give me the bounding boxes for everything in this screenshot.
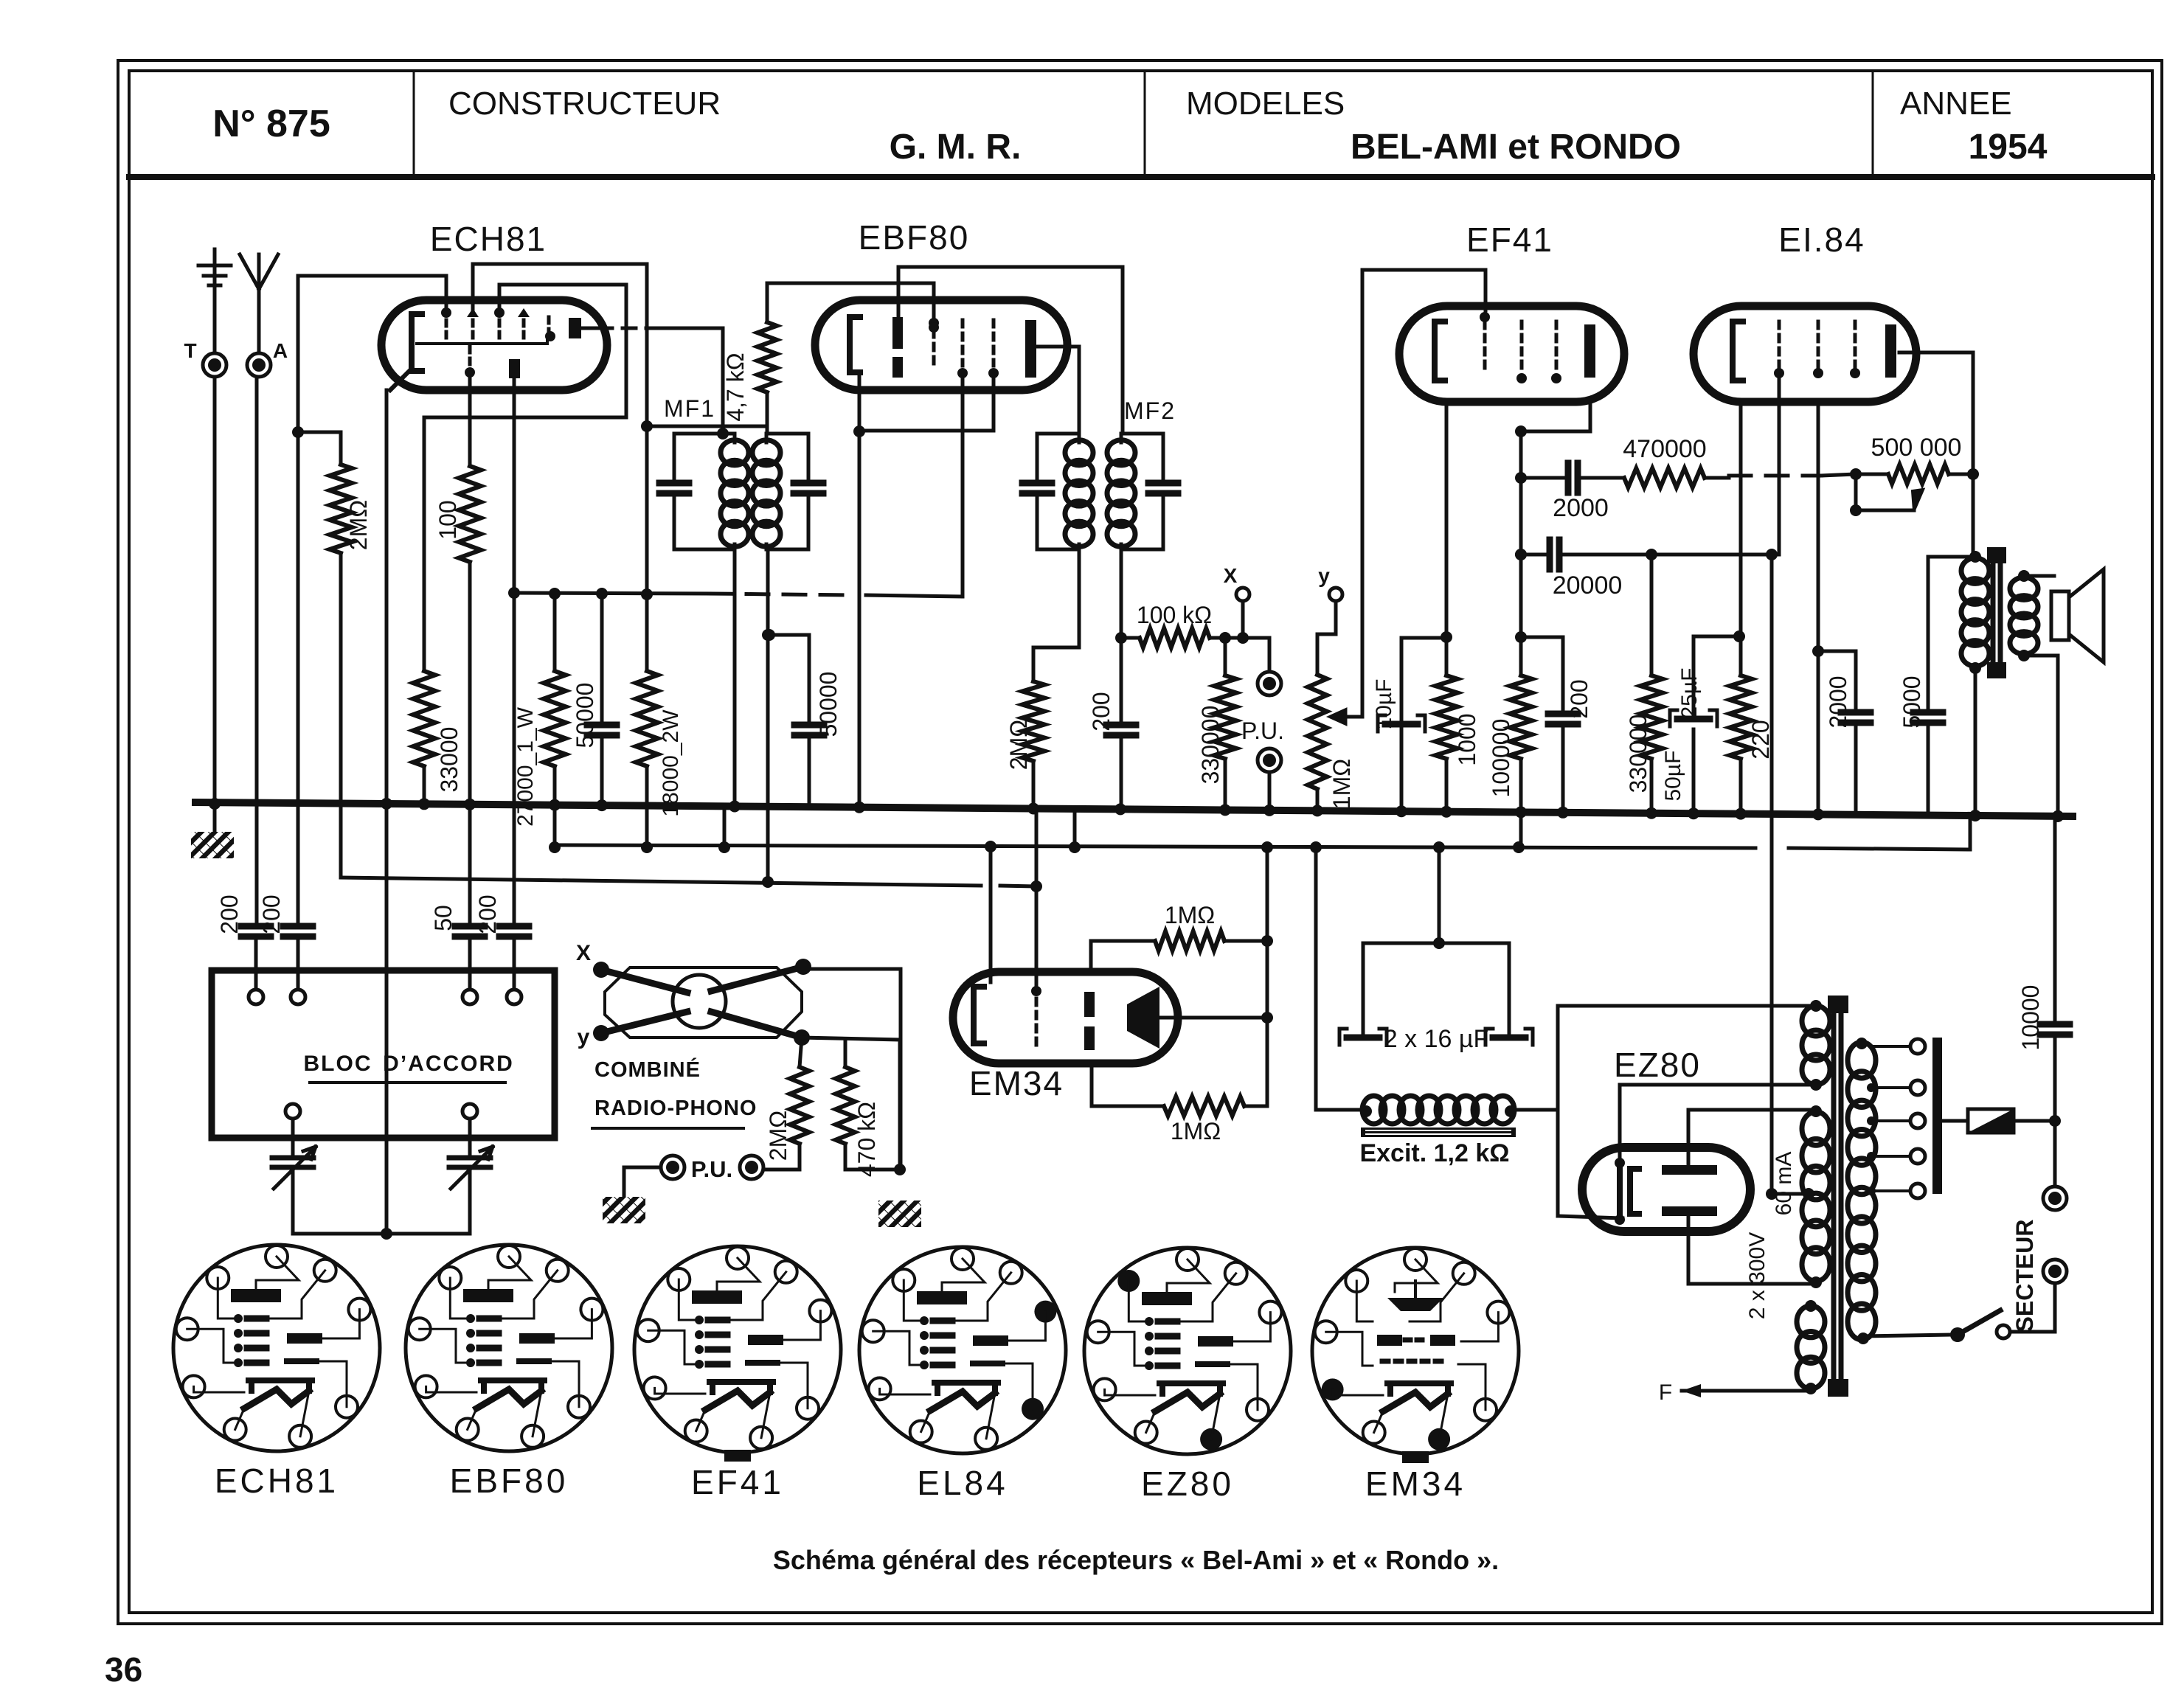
svg-text:SECTEUR: SECTEUR: [2011, 1220, 2038, 1333]
IF transformer MF2 rails: [1037, 434, 1163, 549]
wire pot 1M to bus: [1311, 789, 1323, 816]
svg-text:G. M. R.: G. M. R.: [890, 128, 1022, 167]
EBF80 anode: [1025, 320, 1036, 378]
wire speaker return to bus: [2052, 656, 2064, 822]
header text CONSTRUCTEUR: [448, 86, 721, 122]
capacitor 2x16uF left: [1339, 943, 1387, 1045]
capacitor 10uF cathode: [1378, 638, 1446, 810]
wire 220 to bus: [1735, 759, 1747, 820]
svg-text:ECH81: ECH81: [430, 220, 547, 258]
MF1 primary coil: [721, 434, 749, 549]
label F: [1659, 1380, 1672, 1405]
wire ECH81 anode to MF1: [581, 328, 723, 434]
EM34 cathode: [974, 987, 984, 1043]
wire 33000 to bus: [418, 766, 430, 810]
wire EL84 cathode down: [1733, 402, 1745, 675]
transformer heater winding top: [1802, 1000, 1830, 1091]
label SECTEUR: [2011, 1220, 2038, 1333]
terminal A: [247, 339, 288, 377]
svg-text:Schéma général des récepteu: Schéma général des récepteurs « Bel-Ami …: [773, 1545, 1499, 1575]
wire EZ80 anode top: [1688, 1110, 1811, 1165]
label 60mA: [1772, 1152, 1796, 1216]
resistor 1Mohm EM34 upper: [1091, 931, 1273, 951]
resistor 100000: [1488, 675, 1532, 797]
wire ECH81 osc grid top loop: [473, 264, 767, 671]
svg-text:200: 200: [1088, 692, 1114, 731]
resistor 1Mohm EM34 lower: [1092, 1063, 1267, 1116]
tube EM34: [953, 972, 1178, 1063]
svg-text:EZ80: EZ80: [1141, 1465, 1234, 1503]
svg-text:2 x 16 µF: 2 x 16 µF: [1384, 1025, 1488, 1053]
wire A down to grid capacitor: [255, 378, 259, 926]
wire EBF80 grid3 tie: [861, 373, 994, 431]
supply line A: [555, 845, 1970, 849]
wire screen cap stub: [1521, 637, 1563, 714]
wire 2Mohm detector to bus: [1027, 761, 1039, 815]
jack PU lower right: [740, 1156, 763, 1179]
capacitor 50000 first: [587, 588, 617, 811]
socket diagram EBF80: [406, 1245, 612, 1500]
svg-text:T: T: [184, 339, 196, 362]
EL84 anode: [1885, 324, 1896, 378]
svg-text:y: y: [578, 1025, 590, 1049]
MF2 primary coil: [1065, 434, 1093, 549]
svg-text:470000: 470000: [1623, 435, 1706, 463]
svg-text:RADIO-PHONO: RADIO-PHONO: [594, 1097, 757, 1120]
resistor 220 cathode EL84: [1730, 675, 1774, 760]
svg-text:2000: 2000: [1825, 675, 1851, 728]
wire B+ down to EZ80: [1766, 549, 1778, 1194]
wire EL84 screen down: [1812, 402, 1824, 820]
wire grid cap vertical: [297, 276, 300, 926]
wire OT primary bottom: [1969, 668, 1981, 821]
capacitor 200 ant 1: [241, 926, 271, 988]
resistor 100: [434, 466, 481, 562]
wire PU right to 2M: [763, 1144, 800, 1170]
EZ80 box: [1558, 1006, 1811, 1218]
terminal T: [184, 339, 226, 377]
capacitor 10000 mains: [2040, 810, 2070, 1121]
wire OT primary top feed: [1928, 555, 1975, 559]
MF1 secondary coil: [752, 434, 780, 549]
svg-text:2MΩ: 2MΩ: [1005, 720, 1032, 770]
wire 100 to bus and pad cap: [464, 562, 476, 926]
svg-text:COMBINÉ: COMBINÉ: [594, 1057, 701, 1082]
tube EZ80: [1582, 1147, 1750, 1231]
wire ECH81 heater pin down: [468, 372, 472, 466]
header text 1954: [1969, 128, 2048, 167]
wire PU left to ground: [603, 1167, 661, 1223]
resistor 1000 cathode EF41: [1435, 675, 1480, 766]
svg-text:CONSTRUCTEUR: CONSTRUCTEUR: [448, 86, 721, 122]
capacitor 2000 coupling: [1521, 463, 1624, 493]
EM34 grid: [1031, 986, 1041, 1047]
svg-text:200: 200: [474, 894, 501, 934]
jack PU lower left: [661, 1156, 684, 1179]
EL84 cathode: [1733, 322, 1743, 381]
svg-text:MF1: MF1: [664, 395, 715, 422]
phono switch rotor circle: [673, 975, 726, 1028]
svg-text:A: A: [273, 339, 288, 362]
chassis bus line: [195, 802, 2073, 816]
wire EM34 target out: [1159, 1012, 1273, 1024]
pot 1M wiper arrow: [1331, 710, 1361, 723]
svg-text:EF41: EF41: [691, 1463, 784, 1501]
terminal X upper: [1224, 564, 1249, 644]
jack PU upper 1: [1258, 638, 1281, 695]
wire EL84 grid stub: [1778, 373, 1781, 555]
resistor 2Mohm phono: [765, 1038, 809, 1161]
resistor 470000: [1624, 468, 1705, 487]
svg-text:MODELES: MODELES: [1186, 86, 1345, 122]
wire variable cap common: [293, 1228, 470, 1240]
ECH81 internal grid pins: [441, 308, 555, 341]
node MF1 top: [717, 428, 729, 439]
socket diagram EF41: [634, 1246, 841, 1501]
svg-text:y: y: [1318, 564, 1330, 587]
header text ANNEE: [1900, 86, 2012, 122]
wire 2M ohm top: [298, 432, 341, 465]
wire ECH81 grid1 top: [298, 276, 446, 310]
label PU upper: [1241, 718, 1284, 744]
EBF80 internal bars: [892, 317, 903, 378]
socket diagram ECH81: [173, 1245, 380, 1500]
header divider 2: [1144, 71, 1146, 177]
svg-text:X: X: [576, 941, 591, 965]
resistor 4.7k: [722, 322, 777, 422]
svg-text:EBF80: EBF80: [450, 1462, 569, 1500]
svg-text:1MΩ: 1MΩ: [1328, 759, 1355, 809]
capacitor 20000 coupling: [1515, 540, 1772, 569]
capacitor 5000: [1913, 557, 1943, 813]
terminal X phono: [576, 941, 609, 978]
socket diagram EL84: [859, 1247, 1066, 1502]
svg-text:5000: 5000: [1899, 675, 1925, 728]
wire MF2 primary return: [1033, 549, 1079, 647]
wire heater top lead: [1780, 1004, 1816, 1008]
wire 470k to ground dot: [845, 1144, 900, 1170]
svg-text:50000: 50000: [815, 672, 842, 737]
tuning block terminals top: [249, 990, 521, 1004]
wire 1M upper to EM34: [1089, 941, 1093, 972]
wire 1000 to bus: [1441, 759, 1452, 818]
capacitor 50000 second: [763, 629, 824, 808]
resistor 18000 2W: [636, 671, 683, 817]
wire ECH81 plate pin2 down: [508, 378, 520, 926]
svg-text:EL84: EL84: [917, 1464, 1008, 1502]
svg-text:2MΩ: 2MΩ: [765, 1111, 791, 1161]
jack PU upper 2: [1258, 748, 1281, 816]
resistor 2Mohm detector: [1005, 647, 1044, 770]
transformer HT winding: [1802, 1105, 1830, 1288]
IF transformer MF1 rails: [674, 434, 808, 549]
svg-text:ANNEE: ANNEE: [1900, 86, 2012, 122]
wire MF2 secondary to detector: [1115, 549, 1127, 644]
wire ECH81 osc anode loop: [424, 285, 626, 671]
label Excit 1.2k: [1359, 1139, 1509, 1167]
label COMBINE RADIO-PHONO: [592, 1057, 757, 1128]
EBF80 cathode: [850, 317, 860, 372]
EL84 internal grids: [1774, 322, 1860, 378]
EF41 anode: [1584, 324, 1595, 378]
resistor 2Mohm antenna: [330, 465, 372, 553]
wire EBF80 grid pin up: [767, 283, 939, 333]
wire HT center tap: [1766, 1188, 1809, 1200]
MF2 secondary capacitor: [1148, 434, 1178, 549]
wire MF1 secondary return: [762, 549, 774, 882]
svg-text:MF2: MF2: [1124, 397, 1176, 424]
label MF2: [1124, 397, 1176, 424]
EM34 deflector bars: [1084, 992, 1095, 1050]
svg-text:4,7 kΩ: 4,7 kΩ: [722, 352, 749, 421]
tube EL84: [1694, 306, 1916, 402]
svg-text:EZ80: EZ80: [1614, 1046, 1701, 1084]
mains switch: [1863, 1310, 2055, 1342]
tube ECH81: [381, 300, 607, 390]
ECH81 internal wire: [417, 336, 547, 344]
svg-text:Excit. 1,2 kΩ: Excit. 1,2 kΩ: [1359, 1139, 1509, 1167]
svg-text:200: 200: [1566, 679, 1592, 718]
svg-text:EM34: EM34: [1365, 1465, 1466, 1503]
earth symbol top-left: [198, 249, 231, 353]
capacitor 200 ant 2: [283, 926, 313, 988]
antenna symbol: [240, 254, 278, 353]
wire EF41 grid top: [1362, 270, 1486, 310]
wire 330000 to bus: [1219, 759, 1231, 816]
wire EF41 anode jog: [1515, 402, 1590, 478]
svg-text:EI.84: EI.84: [1778, 220, 1865, 259]
svg-text:200: 200: [216, 894, 243, 934]
resistor 27000 1W: [513, 588, 566, 827]
resistor 330000 detector: [1197, 632, 1236, 784]
svg-text:1MΩ: 1MΩ: [1171, 1118, 1221, 1144]
EZ80 anode plates: [1662, 1165, 1717, 1216]
svg-text:N° 875: N° 875: [212, 103, 330, 145]
wire 2Mohm to AVC line: [339, 553, 343, 877]
wire 18000 to bus: [645, 766, 649, 805]
wire EL84 anode to output transformer: [1899, 352, 1973, 557]
wire EBF80 anode to MF2 primary: [1036, 347, 1079, 434]
header text BEL-AMI et RONDO: [1351, 128, 1681, 167]
phono switch octagon: [605, 967, 802, 1038]
ECH81 anode: [569, 318, 581, 338]
header divider 3: [1872, 71, 1874, 177]
label MF1: [664, 395, 715, 422]
capacitor 200 osc: [499, 926, 529, 988]
svg-text:DʼACCORD: DʼACCORD: [383, 1052, 514, 1076]
svg-text:2MΩ: 2MΩ: [345, 500, 372, 550]
wire EZ80 cathode up: [1620, 1085, 1811, 1163]
svg-text:50000: 50000: [572, 683, 598, 748]
svg-text:50µF: 50µF: [1661, 751, 1685, 802]
MF1 primary capacitor: [659, 434, 689, 549]
svg-text:F: F: [1659, 1380, 1672, 1405]
header text G. M. R.: [890, 128, 1022, 167]
fuse: [1942, 1109, 2061, 1133]
wire phono output down: [803, 969, 901, 1170]
svg-text:330000: 330000: [1197, 706, 1224, 785]
EM34 target: [1127, 987, 1159, 1049]
wire field coil right to EZ80 box: [1512, 1108, 1558, 1112]
tuning block box: [212, 970, 555, 1138]
ECH81 heater pins bottom: [465, 347, 520, 378]
capacitor 50uF cathode: [1670, 636, 1739, 726]
tube EF41: [1399, 306, 1624, 402]
voltage selector bar: [1932, 1038, 1942, 1194]
wire 100000 to line A: [1513, 759, 1527, 853]
wire 50uF to bus: [1688, 729, 1699, 819]
potentiometer 1Mohm volume: [1308, 675, 1355, 809]
svg-text:50: 50: [430, 905, 457, 931]
svg-text:470 kΩ: 470 kΩ: [853, 1102, 880, 1177]
svg-text:ECH81: ECH81: [215, 1462, 339, 1500]
svg-text:18000_2W: 18000_2W: [659, 709, 683, 817]
svg-text:BEL-AMI et RONDO: BEL-AMI et RONDO: [1351, 128, 1681, 167]
svg-text:BLOC: BLOC: [304, 1052, 372, 1076]
svg-text:500 000: 500 000: [1871, 434, 1962, 462]
svg-text:EF41: EF41: [1466, 220, 1553, 259]
header text N 875: [212, 103, 330, 145]
socket diagram EM34: [1312, 1248, 1519, 1503]
svg-text:100000: 100000: [1488, 719, 1514, 798]
potentiometer 500000 tone: [1856, 465, 1979, 484]
wire EF41 anode chain down: [1515, 431, 1527, 675]
tuning block terminals bottom: [285, 1104, 477, 1119]
wire EM34 left to line A: [985, 841, 996, 982]
svg-text:1MΩ: 1MΩ: [1165, 902, 1215, 928]
phono switch blades: [601, 959, 811, 1046]
label BLOC D ACCORD: [304, 1052, 514, 1083]
svg-text:60 mA: 60 mA: [1772, 1152, 1796, 1216]
wire 470000 dashed to pot: [1705, 468, 1862, 480]
capacitor 2000 screen bypass: [1818, 651, 1871, 813]
svg-text:100: 100: [434, 500, 461, 539]
EBF80 internal grids: [929, 318, 999, 378]
pot 500000 wiper: [1850, 474, 1923, 516]
node grid junction: [292, 426, 304, 438]
svg-text:20000: 20000: [1553, 571, 1623, 600]
loudspeaker: [2024, 569, 2104, 662]
svg-text:2 x 300V: 2 x 300V: [1745, 1232, 1769, 1319]
output transformer secondary coil: [2010, 570, 2038, 661]
field coil core bar: [1361, 1128, 1516, 1137]
EF41 cathode: [1435, 322, 1445, 381]
svg-text:27000_1_W: 27000_1_W: [513, 706, 538, 826]
capacitor 200 screen EF41: [1548, 679, 1592, 818]
svg-text:EBF80: EBF80: [859, 218, 970, 257]
wire filter cap feed: [1433, 841, 1445, 943]
svg-text:X: X: [1224, 564, 1238, 587]
transformer heater winding bottom: [1797, 1300, 1825, 1394]
resistor 330000 EL84 grid: [1625, 555, 1663, 793]
wire T to bus: [209, 378, 221, 810]
svg-text:25µF: 25µF: [1677, 668, 1702, 719]
bus ground hatch left: [191, 804, 234, 858]
svg-text:P.U.: P.U.: [1241, 718, 1284, 744]
capacitor 50 osc: [455, 926, 485, 988]
node 20000 junction: [1646, 549, 1657, 560]
label 2x16uF: [1384, 1025, 1488, 1053]
terminal Y upper: [1317, 564, 1342, 675]
wire EBF80 top to MF2: [898, 267, 1123, 434]
wire EF41 cathode down: [1441, 402, 1452, 675]
transformer primary coil: [1848, 1038, 1876, 1344]
capacitor 2x16uF right: [1486, 943, 1533, 1045]
wire EM34 grid to AVC: [1030, 814, 1042, 991]
label 2x300V: [1745, 1232, 1769, 1319]
output transformer primary coil: [1961, 551, 1989, 674]
primary taps: [1867, 1039, 1925, 1198]
capacitor 200 detector: [1106, 638, 1136, 815]
wire EF41 grid return down: [1361, 270, 1365, 717]
caption: [773, 1545, 1499, 1575]
svg-text:100 kΩ: 100 kΩ: [1137, 602, 1212, 628]
wire EZ80 anode bottom: [1688, 1216, 1816, 1284]
wire EM34 supply vertical: [1261, 841, 1273, 1106]
tube EBF80: [815, 300, 1067, 390]
svg-text:200: 200: [258, 894, 285, 934]
svg-text:10000: 10000: [2017, 985, 2044, 1051]
terminal Y phono: [578, 1025, 609, 1049]
jack SECTEUR 2: [2043, 1260, 2067, 1332]
header text MODELES: [1186, 86, 1345, 122]
filter cap rail: [1363, 937, 1509, 949]
ECH81 cathode: [390, 314, 422, 390]
resistor 33000: [413, 671, 462, 792]
label PU lower: [691, 1156, 732, 1182]
line B stubs: [762, 876, 774, 888]
wire line A right end up: [1969, 816, 1972, 849]
wire ECH81 cathode down: [381, 390, 392, 1234]
transformer core: [1828, 996, 1848, 1397]
wire MF1 primary bottom to bus: [729, 549, 741, 813]
variable capacitor 1: [272, 1119, 316, 1234]
svg-text:EM34: EM34: [969, 1064, 1064, 1102]
wire line A left end: [549, 805, 561, 853]
svg-text:1000: 1000: [1454, 713, 1480, 765]
svg-text:2000: 2000: [1553, 494, 1609, 522]
svg-text:330000: 330000: [1625, 715, 1651, 793]
wire 27000 to bus: [549, 766, 561, 811]
EZ80 cathode: [1615, 1158, 1639, 1225]
resistor 470k phono: [836, 1040, 880, 1177]
AVC line B: [341, 878, 1036, 886]
line A stubs: [641, 805, 1081, 853]
svg-text:P.U.: P.U.: [691, 1156, 732, 1182]
wire 4.7k bottom to MF1: [766, 392, 769, 434]
wire EBF80 diode pin down: [961, 373, 965, 597]
EF41 internal grids: [1480, 312, 1561, 383]
wire phono line to ground: [802, 1038, 921, 1227]
OT core: [1987, 547, 2006, 678]
wire 330000 EL84 to bus: [1646, 759, 1657, 819]
svg-text:1954: 1954: [1969, 128, 2048, 167]
wire EBF80 cathode down: [853, 372, 865, 813]
jack SECTEUR 1: [2043, 1121, 2067, 1210]
field coil Excit: [1360, 1096, 1516, 1124]
MF2 primary capacitor: [1022, 434, 1052, 549]
MF2 secondary coil: [1107, 434, 1135, 549]
svg-text:33000: 33000: [436, 727, 462, 793]
socket diagram EZ80: [1084, 1248, 1291, 1503]
wire 4.7k top to EBF80 grid: [766, 283, 769, 322]
wire filament F lead: [1682, 1384, 1811, 1397]
svg-text:10µF: 10µF: [1372, 679, 1396, 730]
MF1 secondary capacitor: [794, 434, 823, 549]
svg-text:36: 36: [105, 1650, 142, 1689]
header divider 1: [413, 71, 415, 177]
header bottom rule: [129, 174, 2152, 180]
